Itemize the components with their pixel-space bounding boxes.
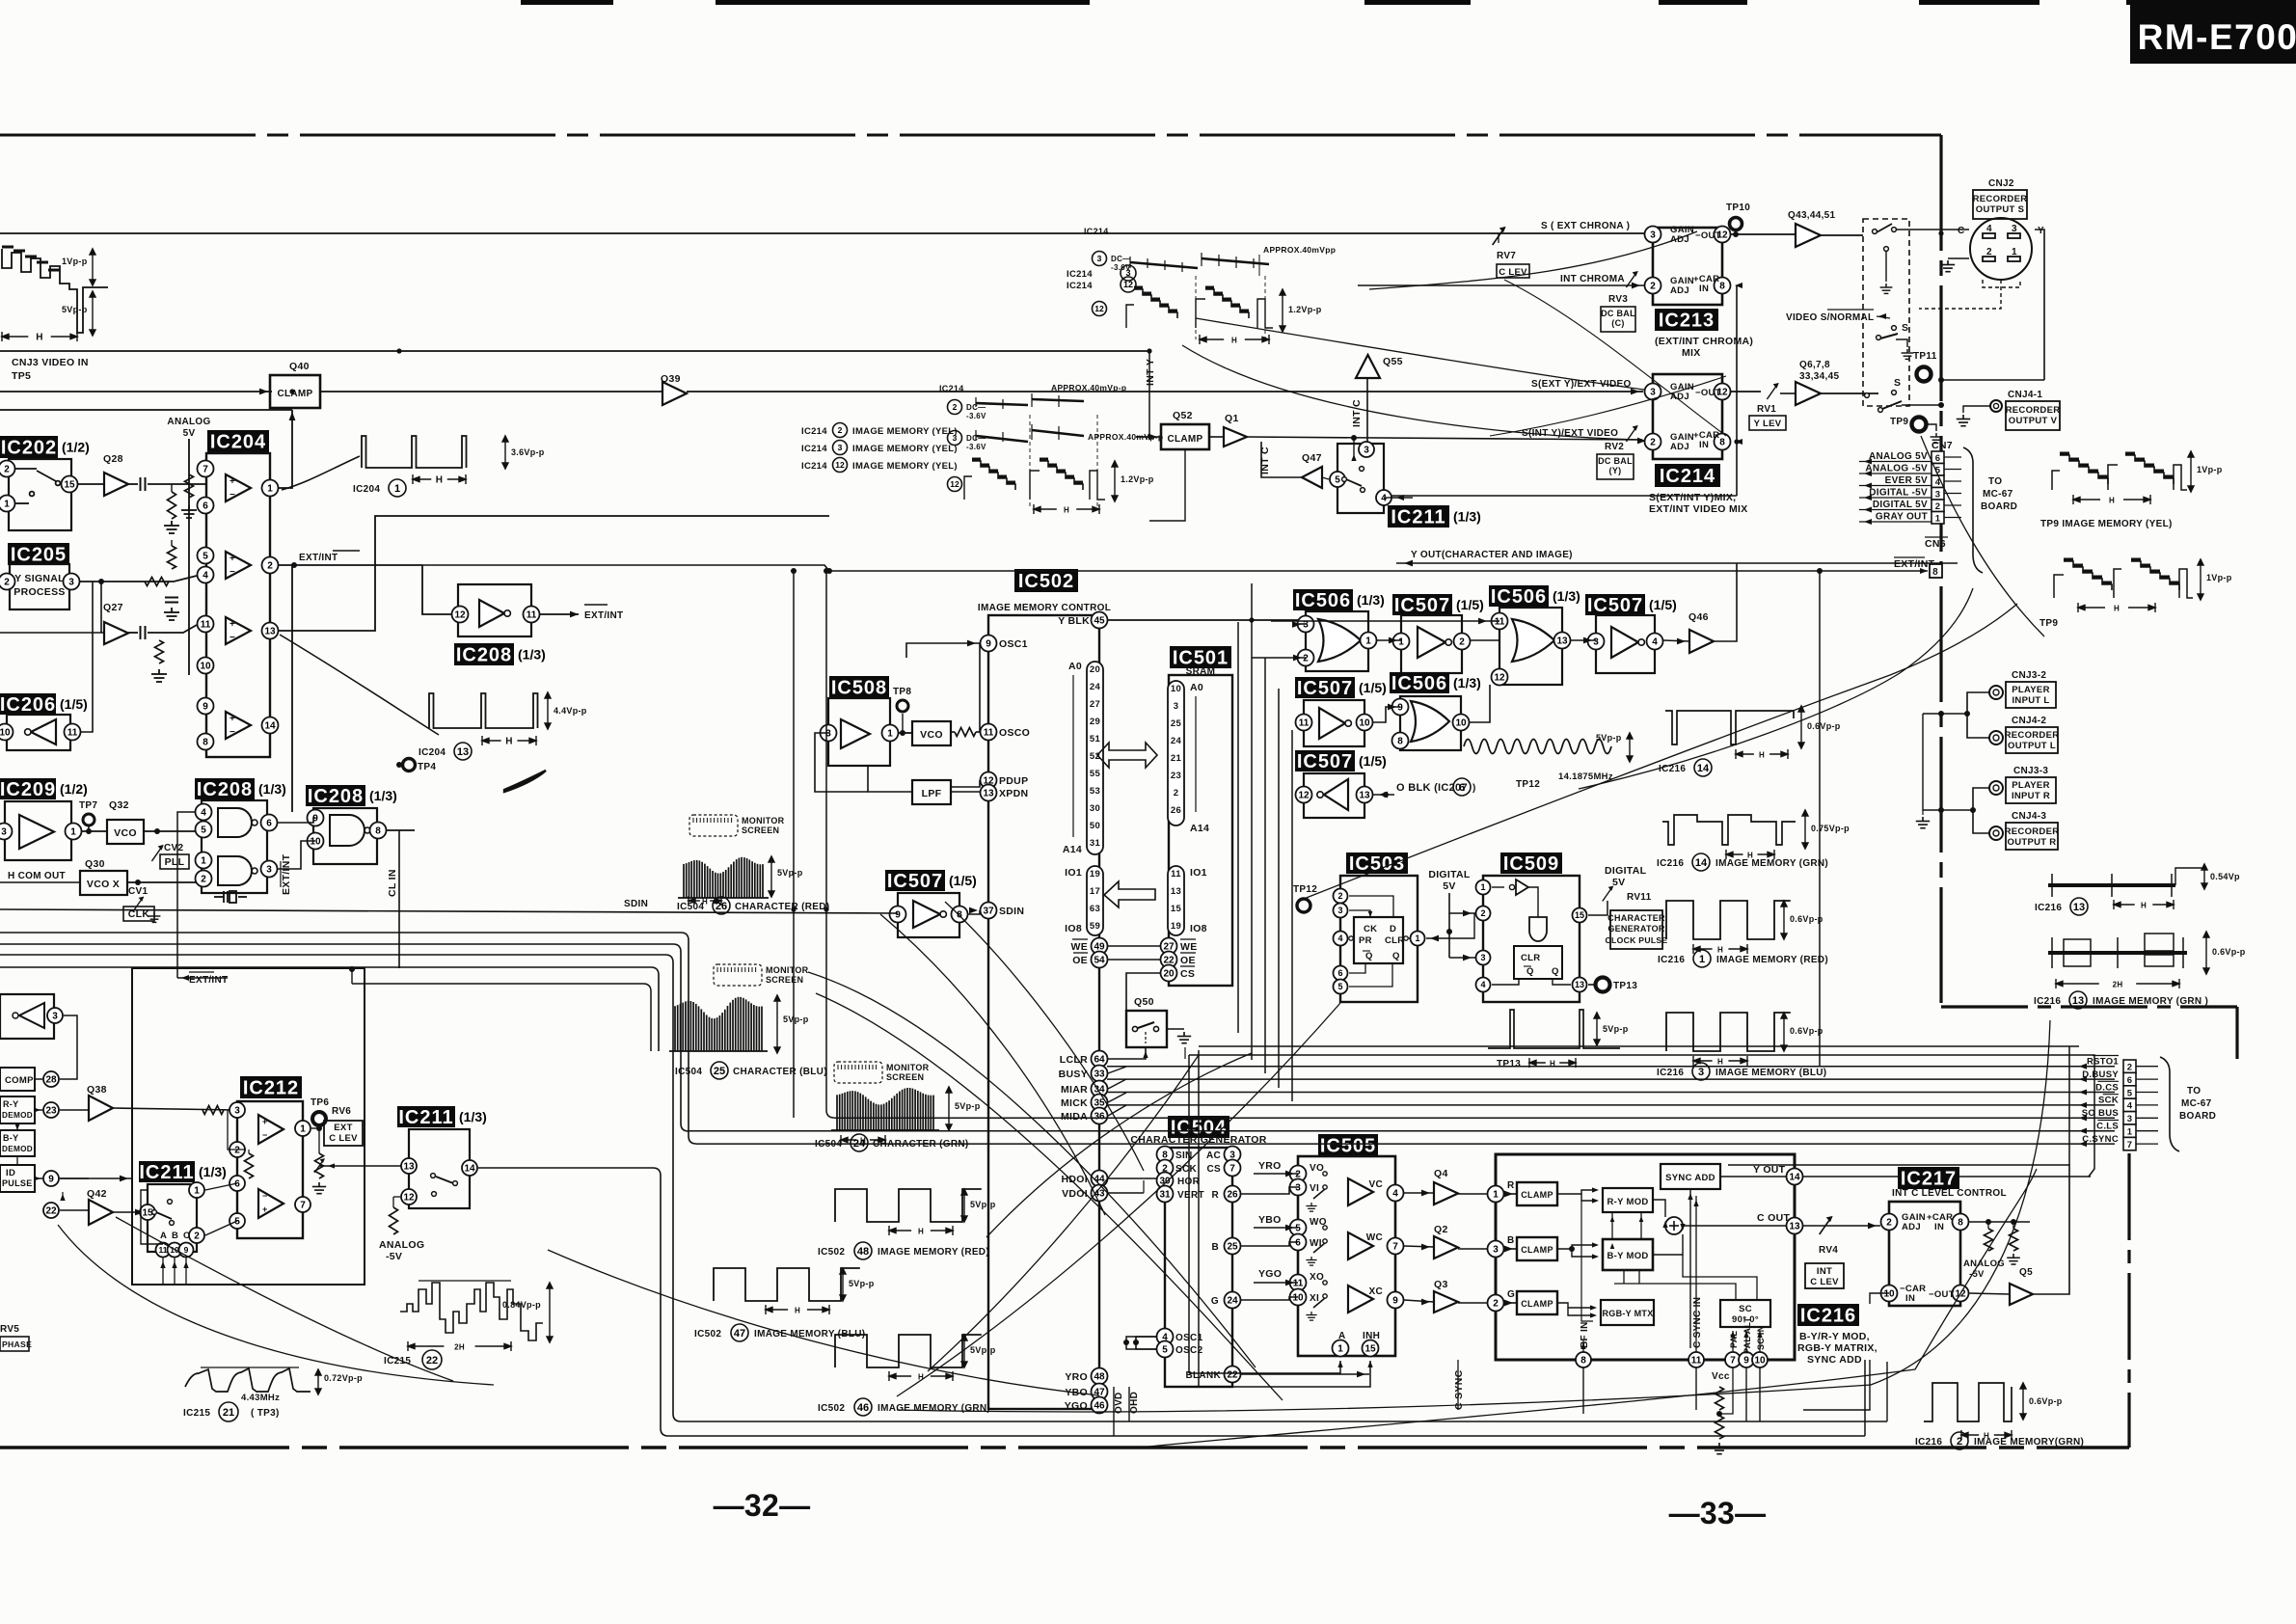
testpoint TP4	[403, 759, 416, 771]
svg-text:1: 1	[887, 729, 893, 740]
svg-text:H: H	[505, 737, 513, 747]
svg-text:+: +	[230, 619, 235, 630]
wire demod links	[35, 1078, 42, 1080]
op-amp IC202	[0, 436, 90, 459]
page border right upper	[1939, 135, 1942, 1007]
svg-text:1.2Vp-p: 1.2Vp-p	[1288, 305, 1322, 314]
svg-text:VCO X: VCO X	[87, 879, 120, 890]
svg-text:RM-E700: RM-E700	[2138, 17, 2296, 57]
svg-text:A: A	[1338, 1331, 1346, 1341]
svg-text:H: H	[1231, 337, 1237, 345]
gate IC208 second	[195, 778, 286, 800]
svg-text:(1/3): (1/3)	[518, 647, 546, 663]
mixer IC214	[1653, 374, 1722, 459]
flip-flop IC509	[1500, 853, 1562, 875]
svg-text:3: 3	[1650, 388, 1656, 398]
svg-text:IMAGE MEMORY (YEL): IMAGE MEMORY (YEL)	[852, 444, 958, 454]
dashed switch box	[1863, 219, 1909, 406]
svg-text:Q50: Q50	[1134, 996, 1154, 1008]
svg-text:DIGITAL: DIGITAL	[1605, 865, 1647, 877]
svg-text:H COM OUT: H COM OUT	[8, 871, 66, 881]
svg-text:RV5: RV5	[0, 1324, 19, 1335]
svg-text:B: B	[172, 1231, 178, 1241]
svg-text:2: 2	[1650, 282, 1656, 292]
svg-text:IN: IN	[1934, 1222, 1944, 1232]
wire clamp out	[320, 391, 662, 392]
wire osc1 up	[906, 643, 980, 658]
capacitor Q28 out	[128, 483, 138, 485]
svg-text:SYNC ADD: SYNC ADD	[1807, 1354, 1862, 1366]
svg-text:10: 10	[1171, 684, 1181, 694]
svg-text:IMAGE MEMORY (RED): IMAGE MEMORY (RED)	[1716, 955, 1828, 965]
svg-text:20: 20	[1163, 969, 1175, 980]
sine wave TP12	[1464, 740, 1611, 754]
svg-text:7: 7	[1730, 1356, 1736, 1367]
svg-text:2: 2	[4, 465, 10, 475]
svg-text:2H: 2H	[2113, 981, 2123, 989]
svg-text:ID: ID	[6, 1168, 15, 1178]
svg-text:TP12: TP12	[1293, 884, 1317, 895]
svg-text:11: 11	[984, 728, 994, 739]
svg-text:−: −	[262, 1130, 268, 1140]
inverter IC507 a	[1392, 594, 1484, 616]
block PHASE	[0, 1337, 29, 1351]
svg-text:C.LS: C.LS	[2096, 1122, 2119, 1132]
svg-text:2: 2	[234, 1146, 240, 1156]
wire out q5	[1969, 1293, 2010, 1294]
svg-text:APPROX.40mVpp: APPROX.40mVpp	[1263, 245, 1336, 255]
svg-text:YBO: YBO	[1258, 1214, 1282, 1226]
svg-text:EXT/INT: EXT/INT	[299, 553, 338, 563]
svg-text:IMAGE MEMORY (GRN): IMAGE MEMORY (GRN)	[878, 1403, 990, 1414]
svg-text:A0: A0	[1068, 661, 1082, 672]
wire clin vertical	[398, 830, 400, 968]
svg-text:IC216: IC216	[1800, 1306, 1856, 1327]
waveform IC215-22	[400, 1283, 543, 1340]
svg-text:GENERATOR: GENERATOR	[1607, 924, 1665, 934]
svg-text:WC: WC	[1366, 1232, 1383, 1243]
svg-text:7: 7	[2127, 1140, 2133, 1150]
waveform IC215-21	[185, 1368, 311, 1392]
svg-text:PLAYER: PLAYER	[2012, 685, 2049, 695]
svg-text:54: 54	[1094, 956, 1105, 966]
curve annotation 1	[808, 972, 1256, 1367]
waveform IC502-47	[714, 1268, 860, 1301]
svg-text:11: 11	[159, 1245, 168, 1255]
wire q55	[1366, 378, 1368, 442]
svg-text:3: 3	[1097, 254, 1102, 263]
waveform TP9 lower	[2064, 561, 2112, 590]
wire WE pair	[1108, 945, 1160, 947]
IC IC217	[1898, 1167, 1959, 1190]
op-amp D	[226, 712, 251, 739]
svg-text:OSC1: OSC1	[999, 638, 1028, 650]
svg-text:DEMOD: DEMOD	[2, 1145, 33, 1153]
svg-text:ADJ: ADJ	[1670, 442, 1689, 452]
clamp G	[1517, 1291, 1557, 1314]
svg-text:D: D	[1390, 924, 1396, 934]
svg-text:(1/3): (1/3)	[1553, 588, 1580, 604]
curve tp9 pointer	[1921, 436, 2044, 636]
wire lclr hor	[1184, 1047, 1186, 1059]
svg-text:6: 6	[1295, 1238, 1301, 1249]
svg-text:OUTPUT R: OUTPUT R	[2008, 837, 2057, 848]
wire s3 node	[1902, 404, 1941, 406]
wire into q52	[1136, 436, 1161, 438]
io pill IC501	[1168, 866, 1184, 935]
svg-text:0.6Vp-p: 0.6Vp-p	[1807, 721, 1841, 731]
svg-text:G: G	[1507, 1289, 1515, 1300]
svg-text:MONITOR: MONITOR	[742, 816, 785, 826]
mixer IC213	[1653, 228, 1722, 305]
svg-text:ANALOG 5V: ANALOG 5V	[1869, 451, 1928, 462]
svg-text:45: 45	[1094, 616, 1105, 627]
pin BUSY33	[1092, 1066, 1108, 1082]
svg-text:12: 12	[835, 460, 845, 470]
svg-text:B-Y MOD: B-Y MOD	[1607, 1251, 1648, 1261]
pin YBO47	[1092, 1384, 1108, 1400]
switch ic505 contacts	[1323, 1172, 1327, 1176]
svg-text:9: 9	[184, 1245, 189, 1255]
svg-text:5V: 5V	[183, 428, 196, 439]
svg-text:15: 15	[1171, 904, 1182, 914]
svg-text:ANALOG: ANALOG	[379, 1239, 424, 1251]
svg-text:TP7: TP7	[79, 800, 97, 811]
bracket CN7	[1963, 447, 1983, 573]
bus arrow io	[1104, 881, 1155, 907]
svg-text:12: 12	[950, 479, 959, 489]
resistor rv6	[315, 1153, 324, 1178]
svg-text:A0: A0	[1190, 682, 1203, 693]
wire nand68	[278, 818, 315, 823]
svg-text:EVER 5V: EVER 5V	[1885, 475, 1928, 486]
block DC BAL C	[1601, 307, 1635, 332]
svg-text:14: 14	[1695, 857, 1708, 869]
svg-text:R-Y: R-Y	[3, 1099, 18, 1109]
inverter left mid	[0, 994, 54, 1039]
svg-text:2: 2	[201, 875, 206, 885]
svg-text:IC205: IC205	[11, 545, 67, 566]
svg-text:13: 13	[457, 746, 469, 758]
svg-text:INT CHROMA: INT CHROMA	[1560, 274, 1625, 284]
svg-text:46: 46	[1094, 1401, 1105, 1412]
svg-text:(1/3): (1/3)	[1357, 592, 1385, 608]
svg-text:R: R	[1211, 1190, 1219, 1201]
svg-text:Q: Q	[1552, 966, 1559, 977]
svg-text:BOARD: BOARD	[2179, 1111, 2216, 1122]
svg-text:YRO: YRO	[1258, 1160, 1282, 1172]
pin YRO48	[1092, 1368, 1108, 1385]
waveform 3.6Vp-p	[362, 436, 467, 468]
svg-text:14: 14	[264, 721, 276, 732]
svg-text:A14: A14	[1190, 823, 1209, 834]
trimmer on line2	[1626, 426, 1636, 442]
svg-text:IC208: IC208	[197, 779, 253, 800]
svg-text:MC-67: MC-67	[1983, 489, 2013, 500]
svg-text:SCK: SCK	[2098, 1096, 2119, 1106]
svg-text:1: 1	[201, 856, 206, 867]
svg-text:CNJ2: CNJ2	[1988, 178, 2014, 189]
svg-text:IC507: IC507	[1394, 595, 1450, 616]
svg-text:Q4: Q4	[1434, 1168, 1448, 1179]
wire pin4	[1384, 497, 1392, 499]
wire clamp vert arrow	[291, 410, 293, 431]
svg-text:IN: IN	[1699, 284, 1709, 294]
svg-text:IN: IN	[1699, 440, 1709, 450]
svg-text:2: 2	[1174, 788, 1179, 798]
svg-text:WE: WE	[1180, 941, 1198, 953]
svg-text:Q52: Q52	[1173, 410, 1193, 421]
svg-text:DIGITAL -5V: DIGITAL -5V	[1869, 488, 1928, 499]
svg-text:CLAMP: CLAMP	[277, 389, 312, 399]
svg-text:8: 8	[1397, 737, 1403, 747]
svg-text:Y OUT(CHARACTER AND IMAGE): Y OUT(CHARACTER AND IMAGE)	[1411, 550, 1573, 560]
wire ic214 car in	[1736, 442, 1738, 496]
switch s1	[1873, 230, 1877, 234]
svg-text:IC507: IC507	[887, 871, 943, 892]
svg-text:1Vp-p: 1Vp-p	[62, 257, 88, 266]
svg-text:8: 8	[375, 826, 381, 837]
svg-text:CLAMP: CLAMP	[1521, 1245, 1553, 1255]
svg-text:Q2: Q2	[1434, 1224, 1448, 1235]
svg-text:48: 48	[857, 1246, 869, 1258]
resistor ic212 fb	[245, 1153, 254, 1178]
svg-text:Q47: Q47	[1302, 452, 1322, 464]
svg-text:OE: OE	[1180, 955, 1196, 966]
svg-text:CNJ4-3: CNJ4-3	[2012, 811, 2046, 822]
op-amp IC205	[8, 543, 69, 566]
svg-text:5Vp-p: 5Vp-p	[777, 868, 803, 878]
svg-text:IC217: IC217	[1901, 1169, 1957, 1190]
svg-text:9: 9	[1392, 1296, 1398, 1307]
io pill IC502	[1087, 866, 1103, 935]
svg-text:IC216: IC216	[1657, 858, 1684, 869]
svg-text:SCREEN: SCREEN	[766, 975, 803, 985]
connector stack MC67	[2123, 1060, 2136, 1072]
svg-text:TP5: TP5	[12, 370, 31, 382]
svg-text:13: 13	[1359, 791, 1370, 801]
svg-text:VCO: VCO	[920, 729, 943, 741]
wire pin2 bus right	[422, 565, 460, 614]
curve right fan 1	[1304, 604, 2017, 899]
wire lclr q50	[1108, 1047, 1146, 1059]
block COMP	[0, 1068, 35, 1091]
svg-text:(Y): (Y)	[1609, 466, 1622, 475]
svg-text:−: −	[230, 727, 235, 738]
svg-text:OVD: OVD	[1114, 1392, 1124, 1414]
svg-text:Q30: Q30	[85, 858, 105, 870]
svg-text:12: 12	[1298, 791, 1310, 801]
svg-text:IO8: IO8	[1190, 923, 1207, 934]
svg-text:H: H	[1064, 506, 1069, 515]
svg-text:OHD: OHD	[1129, 1392, 1140, 1414]
svg-text:IC502: IC502	[818, 1403, 845, 1414]
svg-text:PHASE: PHASE	[2, 1340, 32, 1349]
svg-text:29: 29	[1090, 717, 1100, 727]
pin OSC1	[981, 636, 997, 652]
svg-text:TP6: TP6	[311, 1097, 329, 1108]
wire q4 to pin1	[1458, 1193, 1487, 1195]
svg-text:1: 1	[1398, 637, 1404, 648]
curve annotation 7	[116, 1217, 453, 1381]
svg-text:IC509: IC509	[1503, 853, 1559, 875]
svg-text:5V: 5V	[1443, 880, 1455, 892]
svg-text:−OUT: −OUT	[1695, 388, 1721, 398]
svg-text:IO1: IO1	[1190, 867, 1207, 879]
svg-text:DEMOD: DEMOD	[2, 1111, 33, 1120]
svg-text:3: 3	[52, 1012, 58, 1022]
curve ic214 feed 1	[1196, 318, 1644, 390]
curve annotation 3	[945, 902, 1144, 1171]
wire ic208a out	[540, 613, 579, 615]
svg-text:13: 13	[1171, 886, 1181, 897]
svg-text:H: H	[2114, 605, 2120, 613]
block B-Y MOD	[1603, 1239, 1653, 1270]
op-amp B	[226, 552, 251, 579]
svg-text:3: 3	[266, 865, 272, 876]
wire cnj2 bottom	[1983, 280, 2020, 287]
svg-text:TP9: TP9	[2039, 618, 2058, 629]
svg-text:INPUT R: INPUT R	[2012, 791, 2050, 801]
svg-text:EXT/INT: EXT/INT	[584, 610, 623, 621]
svg-text:MONITOR: MONITOR	[886, 1063, 930, 1072]
svg-text:ADJ: ADJ	[1902, 1222, 1921, 1232]
svg-text:2: 2	[1303, 654, 1309, 664]
op-amp IC212	[240, 1076, 302, 1099]
block R-Y DEMOD	[0, 1096, 35, 1123]
svg-text:H: H	[918, 1228, 924, 1236]
wire CS down	[1126, 973, 1160, 1011]
svg-text:19: 19	[1171, 921, 1181, 932]
svg-text:10: 10	[0, 728, 11, 739]
svg-text:YRO: YRO	[1065, 1371, 1088, 1383]
wire sc in arrows	[1732, 1331, 1734, 1352]
svg-text:XPDN: XPDN	[999, 788, 1028, 799]
svg-text:S ( EXT CHRONA ): S ( EXT CHRONA )	[1541, 221, 1630, 231]
svg-text:2: 2	[1650, 438, 1656, 448]
pin MICK35	[1092, 1095, 1108, 1111]
amp IC209	[0, 778, 88, 800]
svg-text:4.43MHz: 4.43MHz	[241, 1393, 280, 1403]
wire analog5v vertical	[188, 439, 190, 675]
wire vco out	[144, 830, 202, 832]
wire tp7	[82, 830, 107, 832]
svg-text:MICK: MICK	[1061, 1097, 1088, 1109]
svg-text:4: 4	[203, 571, 208, 582]
svg-text:(1/5): (1/5)	[1359, 680, 1387, 695]
testpoint TP12 node	[1297, 899, 1310, 912]
svg-text:7: 7	[300, 1201, 306, 1211]
mid waveform ic214-3	[948, 431, 962, 446]
svg-text:5Vp-p: 5Vp-p	[970, 1345, 996, 1355]
svg-text:IC502: IC502	[1018, 571, 1074, 592]
svg-text:VI: VI	[1310, 1183, 1319, 1194]
svg-text:CL IN: CL IN	[387, 869, 398, 897]
pen slash mark	[504, 771, 546, 792]
svg-text:5Vp-p: 5Vp-p	[1596, 733, 1622, 743]
pin OE54	[1092, 952, 1108, 968]
svg-text:Q: Q	[1365, 951, 1373, 961]
waveform monitor BLU	[714, 964, 762, 986]
svg-text:IC506: IC506	[1491, 586, 1547, 608]
svg-text:2: 2	[953, 402, 958, 412]
svg-text:TP13: TP13	[1613, 981, 1637, 991]
svg-text:31: 31	[1159, 1190, 1171, 1201]
wire yout pin to wrap	[1803, 1176, 2091, 1177]
svg-text:H: H	[1759, 751, 1765, 760]
switch IC211b	[139, 1161, 227, 1183]
wire q1 out	[1247, 437, 1642, 440]
svg-text:EXT: EXT	[334, 1123, 352, 1133]
svg-text:RV11: RV11	[1627, 892, 1652, 903]
opamp b ic212	[258, 1189, 284, 1218]
wire ext-int nand vertical	[177, 812, 196, 978]
wire yout wrap top	[1189, 1055, 2094, 1177]
svg-text:INT C LEVEL CONTROL: INT C LEVEL CONTROL	[1892, 1188, 2007, 1199]
pin OSCO	[981, 724, 997, 741]
svg-text:RV6: RV6	[332, 1106, 351, 1117]
svg-text:1: 1	[1699, 954, 1705, 965]
svg-text:B: B	[1507, 1235, 1515, 1246]
svg-text:A: A	[160, 1231, 167, 1241]
wire cnj41	[1963, 406, 1990, 413]
svg-text:MC-67: MC-67	[2181, 1098, 2212, 1109]
svg-text:IC208: IC208	[308, 786, 364, 807]
svg-text:INPUT L: INPUT L	[2012, 695, 2049, 706]
wire tp6	[311, 1127, 319, 1129]
svg-text:15: 15	[1575, 910, 1584, 920]
connector CNJ2 circle	[1970, 218, 2032, 280]
pin OE22	[1161, 952, 1177, 968]
svg-text:COMP: COMP	[5, 1075, 34, 1086]
svg-text:26: 26	[1227, 1190, 1238, 1201]
svg-text:3: 3	[1295, 1183, 1301, 1194]
svg-text:Q46: Q46	[1688, 611, 1709, 623]
trimmer RV1 on line	[1767, 384, 1777, 399]
curve annotation 5	[986, 1053, 1252, 1237]
svg-text:1: 1	[267, 484, 273, 495]
testpoint TP13	[1588, 984, 1603, 986]
amp ic505 a	[1348, 1178, 1373, 1205]
svg-text:IC211: IC211	[139, 1162, 194, 1183]
svg-text:4: 4	[1337, 934, 1342, 943]
svg-text:28: 28	[45, 1075, 57, 1086]
svg-text:VO: VO	[1310, 1163, 1324, 1174]
svg-text:15: 15	[1364, 1344, 1376, 1355]
svg-text:IC502: IC502	[694, 1329, 721, 1340]
IC IC504	[1168, 1116, 1229, 1139]
svg-text:8: 8	[1958, 1218, 1963, 1229]
svg-text:11: 11	[1495, 617, 1505, 628]
svg-text:C SYNC: C SYNC	[1453, 1369, 1465, 1410]
wire video line into clamp	[0, 391, 272, 392]
curve annotation 8	[58, 1225, 494, 1385]
waveform IC216-1	[1666, 901, 1791, 939]
bus arrow addr	[1097, 743, 1157, 768]
svg-text:(1/2): (1/2)	[60, 781, 88, 797]
svg-text:1: 1	[2127, 1127, 2133, 1138]
wire ic211c out wrap outer	[478, 1168, 1865, 1436]
svg-text:CN7: CN7	[1931, 440, 1953, 451]
svg-text:6: 6	[203, 501, 208, 512]
switch s2	[1892, 326, 1897, 331]
svg-text:OUTPUT L: OUTPUT L	[2008, 741, 2056, 751]
svg-text:2: 2	[838, 425, 843, 435]
waveform IC216-3	[1666, 1013, 1791, 1051]
wire sync add out	[1720, 1176, 1786, 1177]
svg-text:CLAMP: CLAMP	[1167, 434, 1202, 445]
svg-text:3: 3	[1174, 701, 1179, 712]
